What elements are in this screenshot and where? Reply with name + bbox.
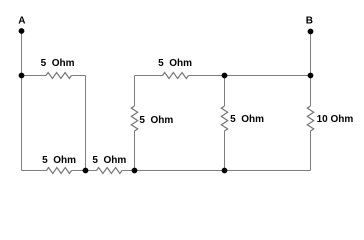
- terminal dot node A: [19, 28, 25, 34]
- junction dot bottom middle-left: [132, 168, 138, 174]
- junction dot top right (node B rail): [308, 73, 314, 79]
- terminal dot node B: [308, 29, 314, 35]
- wire lead right of resistor R5 to middle junction: [189, 75, 225, 77]
- wire top rail middle junction to right junction: [225, 75, 311, 77]
- svg-text:5 Ohm: 5 Ohm: [230, 114, 264, 125]
- resistor R6 5 Ohm zigzag (middle vertical): [221, 106, 227, 131]
- wire lead right of resistor R3 to junction: [122, 170, 135, 172]
- svg-text:10 Ohm: 10 Ohm: [317, 114, 354, 125]
- junction dot top-left (node A rail): [19, 73, 25, 79]
- resistor R7 10 Ohm zigzag (right vertical): [307, 106, 313, 131]
- svg-text:5 Ohm: 5 Ohm: [42, 155, 76, 166]
- svg-text:5 Ohm: 5 Ohm: [158, 58, 192, 69]
- junction dot bottom middle: [222, 168, 228, 174]
- wire A terminal to top-left junction: [21, 31, 23, 76]
- svg-text:5 Ohm: 5 Ohm: [139, 115, 173, 126]
- junction dot bottom left: [83, 168, 89, 174]
- wire lead right of resistor R1 to corner: [72, 75, 86, 77]
- resistor R1 5 Ohm zigzag (top left horizontal): [46, 73, 72, 79]
- wire corner down to bottom rail junction: [85, 76, 87, 171]
- wire lead left of resistor R3: [86, 170, 97, 172]
- wire top corner to lead of resistor R5: [135, 75, 163, 77]
- svg-text:5 Ohm: 5 Ohm: [41, 58, 75, 69]
- wire lead left of resistor R1: [22, 75, 47, 77]
- resistor R5 5 Ohm zigzag (top middle horizontal): [163, 73, 189, 79]
- svg-text:5 Ohm: 5 Ohm: [92, 155, 126, 166]
- svg-text:B: B: [306, 15, 313, 26]
- wire upper lead of resistor R7: [310, 76, 312, 107]
- wire lead right of resistor R2 to junction: [72, 170, 86, 172]
- wire B terminal to top-right junction: [310, 31, 312, 76]
- wire top-left junction down to bottom-left corner: [21, 76, 23, 171]
- wire lower lead of resistor R7 to bottom-right corner: [310, 131, 312, 171]
- wire bottom rail from junction to bottom-right corner: [135, 170, 311, 172]
- wire bottom-left corner to lead of resistor R2: [22, 170, 47, 172]
- wire upper lead of resistor R6: [224, 76, 226, 107]
- wire lower lead of resistor R4 to bottom junction: [134, 131, 136, 171]
- svg-text:A: A: [18, 16, 25, 27]
- resistor R4 5 Ohm zigzag (left vertical): [131, 106, 137, 131]
- junction dot top middle: [222, 73, 228, 79]
- resistor R3 5 Ohm zigzag (bottom middle horizontal): [97, 168, 123, 174]
- wire upper lead of resistor R4: [134, 76, 136, 107]
- resistor R2 5 Ohm zigzag (bottom left horizontal): [47, 168, 72, 174]
- wire lower lead of resistor R6 to bottom junction: [224, 131, 226, 171]
